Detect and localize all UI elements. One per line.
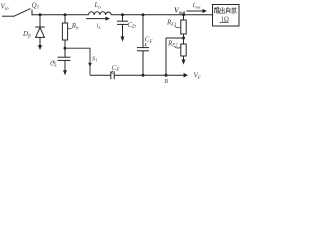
- wire CF branch lower: [142, 51, 144, 75]
- char 负: [226, 7, 230, 13]
- svg-text:B: B: [164, 79, 168, 85]
- leader RF1: [175, 26, 181, 28]
- wire diode branch: [39, 15, 41, 27]
- capacitor CF plates: [137, 47, 149, 49]
- node G junction dot: [165, 74, 168, 77]
- leader CF: [145, 43, 146, 46]
- svg-text:Vin: Vin: [1, 3, 10, 12]
- ground arrow below RF2: [182, 60, 186, 65]
- node Vout junction dot: [182, 13, 185, 16]
- wire CF branch upper: [142, 15, 144, 48]
- wire bottom rail left: [90, 74, 111, 76]
- char 出: [220, 7, 225, 13]
- switch Q1 fixed contact: [31, 10, 33, 16]
- resistor RF1: [181, 20, 186, 34]
- leader RF2: [174, 47, 180, 49]
- svg-text:RF2: RF2: [167, 39, 178, 48]
- wire top rail right: [111, 14, 212, 16]
- node D junction dot: [142, 13, 145, 16]
- capacitor Cs plates: [58, 56, 71, 58]
- node B junction dot: [64, 13, 67, 16]
- wire Rb bottom: [64, 40, 66, 48]
- svg-text:iL: iL: [97, 23, 102, 30]
- svg-text:CD: CD: [128, 21, 137, 30]
- wire CD bottom: [122, 24, 124, 37]
- wire Cs bottom: [64, 60, 66, 70]
- svg-text:Lo: Lo: [94, 1, 102, 10]
- svg-text:Q1: Q1: [32, 1, 40, 10]
- leader Rb: [68, 28, 72, 29]
- capacitor CD plates: [117, 20, 128, 22]
- arrow VF head: [184, 73, 188, 78]
- arrow S1 direction head: [88, 63, 92, 68]
- capacitor Cb plates: [110, 71, 112, 79]
- leader Cb: [112, 71, 114, 73]
- resistor Rb: [62, 23, 67, 40]
- wire divider tap vertical: [165, 38, 167, 75]
- wire CD top: [122, 15, 124, 21]
- leader Cs: [53, 61, 56, 63]
- char 载: [232, 7, 237, 13]
- diode Dfl triangle: [36, 28, 45, 38]
- wire RF1 bottom: [183, 34, 185, 44]
- node Vin input stub wire: [2, 15, 14, 17]
- svg-text:Rb: Rb: [71, 22, 79, 31]
- svg-text:CF: CF: [112, 64, 120, 73]
- resistor RF2: [181, 44, 186, 56]
- ground arrow below CD: [121, 37, 125, 42]
- diode Dfl cathode bar: [35, 26, 45, 28]
- wire divider tap horizontal: [166, 37, 184, 39]
- ground arrow below diode: [38, 45, 42, 50]
- svg-text:Iout: Iout: [192, 2, 202, 9]
- svg-text:S1: S1: [92, 55, 98, 62]
- load box outline: [213, 5, 240, 27]
- wire RF1 top: [183, 15, 185, 20]
- arrow Iout: [187, 10, 204, 12]
- wire top rail left: [32, 14, 89, 16]
- wire diode anode: [39, 37, 41, 45]
- wire Rb top: [64, 15, 66, 23]
- wire bottom rail right: [114, 74, 184, 76]
- wire RF2 bottom: [183, 56, 185, 60]
- char 输: [214, 7, 219, 13]
- wire Cs top: [64, 48, 66, 57]
- node H junction dot: [182, 37, 185, 40]
- node A junction dot: [39, 13, 42, 16]
- svg-text:Dfl: Dfl: [22, 30, 31, 39]
- switch Q1 blade: [14, 9, 31, 17]
- arrow iL under inductor: [86, 18, 106, 20]
- inductor Lo: [89, 12, 112, 15]
- load box text line1: 输出负载 (drawn strokes): [214, 7, 237, 13]
- node F junction dot: [142, 74, 145, 77]
- node C junction dot: [121, 13, 124, 16]
- svg-text:VF: VF: [194, 72, 201, 81]
- wire S branch: [65, 48, 90, 75]
- svg-text:Vout: Vout: [174, 7, 186, 16]
- node E junction dot: [64, 47, 67, 50]
- ground arrow below Cs: [63, 70, 67, 75]
